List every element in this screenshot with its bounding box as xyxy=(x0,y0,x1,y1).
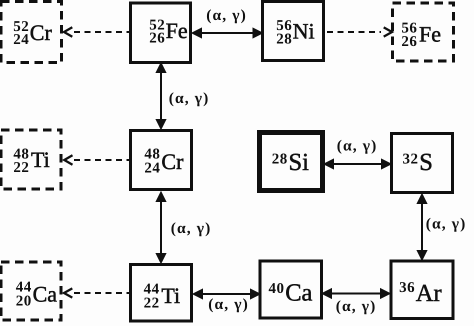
svg-text:S: S xyxy=(419,149,433,176)
box Ti-48 (dashed) xyxy=(1,130,61,189)
svg-text:Cr: Cr xyxy=(161,149,184,174)
svg-text:22: 22 xyxy=(144,296,160,312)
svg-text:22: 22 xyxy=(13,160,29,176)
text Ti-48 xyxy=(13,147,49,176)
svg-text:Ca: Ca xyxy=(285,280,312,307)
wire Si28-S32 (double arrow) xyxy=(325,160,390,168)
svg-text:26: 26 xyxy=(401,34,417,50)
svg-text:(α, γ): (α, γ) xyxy=(169,90,210,107)
text Si-28 xyxy=(272,149,309,176)
text Fe-52 xyxy=(149,18,187,47)
wire Cr48-Ti48 (dashed arrow left) xyxy=(64,155,129,164)
svg-text:(α, γ): (α, γ) xyxy=(171,220,212,237)
svg-text:24: 24 xyxy=(144,161,160,177)
text Ca-44 xyxy=(16,280,58,310)
box Fe-56 (dashed) xyxy=(393,3,454,61)
svg-text:(α, γ): (α, γ) xyxy=(206,7,247,24)
svg-text:28: 28 xyxy=(276,31,292,47)
wire Fe52-Cr48 (vertical double arrow) xyxy=(157,64,165,128)
box Ca-44 (dashed) xyxy=(1,262,61,320)
wire Fe52-Ni56 (double arrow) xyxy=(193,29,262,37)
box Fe-52 xyxy=(131,3,191,63)
box Ca-40 xyxy=(260,261,322,318)
svg-text:(α, γ): (α, γ) xyxy=(337,138,378,155)
svg-text:36: 36 xyxy=(399,280,415,296)
svg-text:Ti: Ti xyxy=(161,283,180,308)
svg-text:(α, γ): (α, γ) xyxy=(336,298,377,315)
svg-text:32: 32 xyxy=(403,151,419,167)
wire Ti44-Ca44 (dashed arrow left) xyxy=(64,288,129,297)
box Cr-52 (dashed) xyxy=(1,2,62,63)
text Ni-56 xyxy=(276,18,314,47)
wire Ca40-Ar36 (double arrow) xyxy=(323,290,389,298)
svg-text:Ni: Ni xyxy=(293,19,315,44)
svg-text:Fe: Fe xyxy=(419,22,441,47)
text Ca-40 xyxy=(269,280,313,307)
svg-text:Fe: Fe xyxy=(166,18,188,43)
wire Cr48-Ti44 (vertical double arrow) xyxy=(157,193,165,262)
svg-text:24: 24 xyxy=(13,32,29,48)
wire Ni56-Fe56 (dashed arrow right) xyxy=(327,27,392,36)
svg-text:28: 28 xyxy=(272,151,288,167)
wire Fe52-Cr52 (dashed arrow left) xyxy=(64,27,129,37)
text Cr-52 xyxy=(13,19,52,48)
wire S32-Ar36 (vertical double arrow) xyxy=(418,195,426,259)
wire Ti44-Ca40 (double arrow) xyxy=(194,290,259,298)
svg-text:(α, γ): (α, γ) xyxy=(208,296,249,313)
svg-text:20: 20 xyxy=(16,294,32,310)
box Ti-44 xyxy=(131,265,192,322)
svg-text:Si: Si xyxy=(289,149,310,176)
box Ar-36 xyxy=(391,261,453,319)
box Cr-48 xyxy=(131,131,192,190)
svg-text:(α, γ): (α, γ) xyxy=(426,216,467,233)
text Fe-56 xyxy=(401,20,441,49)
text Ti-44 xyxy=(144,281,181,311)
svg-text:Ar: Ar xyxy=(416,280,442,307)
svg-text:Ca: Ca xyxy=(33,281,58,306)
text Ar-36 xyxy=(399,280,442,307)
text Cr-48 xyxy=(144,146,184,176)
svg-text:Ti: Ti xyxy=(31,147,50,172)
text S-32 xyxy=(403,149,433,176)
svg-text:40: 40 xyxy=(269,281,285,297)
box S-32 xyxy=(392,134,453,193)
svg-text:26: 26 xyxy=(149,31,165,47)
box Ni-56 xyxy=(263,2,324,61)
box Si-28 (thick) xyxy=(260,133,323,191)
svg-text:Cr: Cr xyxy=(30,20,53,45)
